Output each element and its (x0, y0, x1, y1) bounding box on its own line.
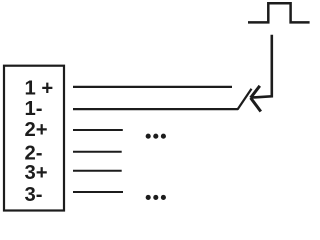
svg-text:1 +: 1 + (25, 77, 54, 99)
svg-text:1-: 1- (25, 98, 43, 120)
svg-text:2+: 2+ (25, 119, 48, 141)
svg-text:3-: 3- (25, 184, 43, 206)
svg-text:3+: 3+ (25, 162, 48, 184)
